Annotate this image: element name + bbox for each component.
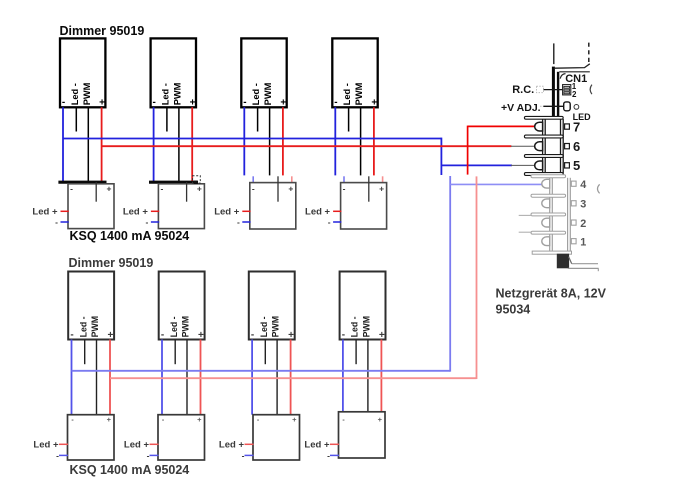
KSQ K6 (KSQ 1400 mA 95024) box bbox=[158, 415, 205, 460]
svg-text:+: + bbox=[190, 98, 196, 109]
svg-text:Led +: Led + bbox=[305, 206, 331, 217]
wire: '-' stub of K5 (blue) bbox=[59, 454, 68, 456]
wire: '-' stub of K4 (blue) bbox=[333, 221, 341, 223]
label: Led + (K7) bbox=[219, 440, 245, 461]
wire: terminal 5 grey stub bbox=[511, 164, 536, 166]
svg-text:7: 7 bbox=[573, 119, 580, 134]
wire: Led+ stub of K3 (red) bbox=[242, 210, 250, 212]
grey arc (case detail, right of terminal 4) bbox=[598, 184, 600, 193]
svg-text:-: - bbox=[243, 97, 246, 108]
R.C. grey dotted pad bbox=[537, 86, 544, 92]
terminal flange bar between 7/6 bbox=[524, 135, 563, 138]
terminal 5 pin square bbox=[565, 163, 570, 168]
wire U3 pin 'Led -' (black stub) bbox=[257, 107, 259, 131]
wire U5 pin '+' (red) down bbox=[109, 340, 111, 417]
wire U2 pin '-' (blue) down bbox=[153, 107, 155, 182]
svg-text:+: + bbox=[379, 330, 385, 341]
svg-text:+: + bbox=[288, 184, 293, 194]
wire U2 pin 'PWM' (black) down bbox=[178, 107, 180, 182]
wire U6 pin 'Led -' (black stub) bbox=[174, 340, 176, 365]
wire: riser bottom blue bus to terminal 4 (light blue vertical x=450) bbox=[449, 176, 451, 372]
svg-text:-: - bbox=[153, 97, 156, 108]
svg-text:-: - bbox=[342, 329, 345, 340]
PSU cable end tick bbox=[597, 268, 599, 271]
svg-text:R.C.: R.C. bbox=[512, 84, 534, 96]
wire: riser bottom red bus (light red vertical x=476) bbox=[476, 176, 478, 379]
wire U1 pin 'Led -' (black stub) bbox=[75, 107, 77, 131]
svg-text:+: + bbox=[280, 98, 286, 109]
grey arc (case detail, right of CN1) bbox=[590, 85, 592, 95]
svg-text:PWM: PWM bbox=[90, 316, 100, 338]
grey terminal 3 screw contact bbox=[542, 199, 550, 208]
label: Led + (K1) bbox=[32, 206, 58, 227]
wire: top blue bus to terminal 5 bbox=[441, 164, 512, 166]
terminal flange bar between 6/5 bbox=[524, 155, 563, 158]
svg-text:-: - bbox=[327, 450, 330, 460]
svg-text:-: - bbox=[146, 217, 149, 227]
CN1 leader arc bbox=[560, 74, 565, 79]
terminal block body vertical x=560.5 bbox=[560, 119, 562, 173]
svg-text:Led +: Led + bbox=[214, 206, 240, 217]
svg-text:5: 5 bbox=[573, 158, 580, 173]
svg-text:PWM: PWM bbox=[263, 82, 273, 105]
svg-text:-: - bbox=[56, 450, 59, 460]
wire: K3 '-' stub (light blue) bbox=[252, 176, 254, 183]
ADJ grey dotted stub bbox=[540, 105, 543, 107]
svg-text:+: + bbox=[107, 184, 112, 194]
wire: top red bus (+ rail) to terminal 6 bbox=[102, 145, 512, 147]
wire U6 pin 'PWM' (black) down into KSQ bbox=[186, 340, 188, 434]
wire U4 pin 'Led -' (black stub) bbox=[348, 107, 350, 131]
svg-text:2: 2 bbox=[580, 218, 586, 230]
wire: '-' stub of K8 (blue) bbox=[330, 454, 339, 456]
wire: K3 '+' stub (light red) bbox=[291, 176, 293, 183]
svg-text:Netzgrerät 8A, 12V: Netzgrerät 8A, 12V bbox=[496, 287, 607, 301]
wire U3 pin '-' (blue) down bbox=[243, 107, 245, 175]
dimmer U6 (Dimmer 95019) box with pin labels bbox=[159, 272, 205, 341]
wire: Led+ stub of K2 (red) bbox=[151, 210, 159, 212]
wire U5 pin 'Led -' (black stub) bbox=[84, 340, 86, 365]
KSQ K2 (KSQ 1400 mA 95024) box bbox=[158, 184, 204, 229]
label: Led + (K3) bbox=[214, 206, 240, 227]
PSU cable line upper bbox=[572, 263, 598, 265]
svg-text:PWM: PWM bbox=[271, 316, 281, 338]
svg-text:Led +: Led + bbox=[32, 206, 58, 217]
terminal 6 screw contact (half-disc) bbox=[535, 142, 543, 151]
grey flange bar between 4/3 bbox=[531, 194, 566, 197]
svg-text:Led -: Led - bbox=[161, 83, 171, 105]
wire: K4 '+' stub (light red) bbox=[382, 176, 384, 183]
svg-text:+: + bbox=[288, 330, 294, 341]
wire U3 pin 'PWM' (black) down bbox=[269, 107, 271, 175]
PSU cable line lower bbox=[568, 267, 599, 269]
svg-text:Led -: Led - bbox=[78, 316, 88, 337]
PSU left wall thick bar 1 bbox=[552, 67, 555, 117]
wire U1 pin 'PWM' (black) down bbox=[87, 107, 89, 182]
terminal flange bar above 7 bbox=[524, 116, 563, 119]
svg-text:+V ADJ.: +V ADJ. bbox=[501, 102, 541, 114]
KSQ K1 (KSQ 1400 mA 95024) box bbox=[68, 184, 114, 229]
wire: terminal 6 grey stub bbox=[511, 145, 536, 147]
svg-text:2: 2 bbox=[572, 90, 577, 99]
svg-text:PWM: PWM bbox=[362, 316, 372, 338]
wire: bottom red bus (+ rail) bbox=[110, 377, 477, 379]
wire: Led+ stub of K6 (red) bbox=[150, 443, 159, 445]
wire: '-' stub of K6 (blue) bbox=[150, 454, 159, 456]
svg-text:1: 1 bbox=[580, 236, 586, 248]
terminal flange bar below 5 bbox=[524, 173, 563, 176]
wire: Led+ stub of K8 (red) bbox=[330, 443, 339, 445]
terminal block body vertical x=545.2 bbox=[544, 119, 546, 173]
wire: bottom blue bus (- rail) bbox=[72, 370, 451, 372]
wire U3 pin '+' (red) down bbox=[282, 107, 284, 175]
terminal 7 screw contact (half-disc) bbox=[535, 122, 543, 131]
dimmer U5 (Dimmer 95019) box with pin labels bbox=[68, 272, 114, 341]
dimmer U7 (Dimmer 95019) box with pin labels bbox=[249, 272, 295, 341]
svg-text:-: - bbox=[251, 329, 254, 340]
ADJ pin line bbox=[543, 105, 563, 107]
svg-text:Led -: Led - bbox=[251, 83, 261, 105]
wire: Led+ stub of K1 (red) bbox=[61, 210, 69, 212]
terminal bar above KSQ K2 (thick black) bbox=[149, 181, 197, 184]
svg-text:KSQ 1400 mA 95024: KSQ 1400 mA 95024 bbox=[70, 463, 190, 477]
wire: top blue bus vertical drop at x=441 bbox=[440, 138, 442, 175]
PSU cable exit block (filled) bbox=[557, 254, 568, 268]
dimmer U1 (Dimmer 95019) box with pin labels bbox=[60, 38, 105, 108]
KSQ K4 (KSQ 1400 mA 95024) box bbox=[341, 183, 387, 229]
wire: K4 '-' stub (light blue) bbox=[343, 176, 345, 183]
svg-text:3: 3 bbox=[580, 199, 586, 211]
grey terminal 2 pin square bbox=[571, 220, 576, 225]
svg-text:-: - bbox=[62, 97, 65, 108]
grey terminal body vertical x=552.3 bbox=[551, 178, 553, 251]
wire: top blue bus (- rail) to PSU corner bbox=[63, 138, 442, 140]
svg-text:Led +: Led + bbox=[219, 440, 245, 451]
grey terminal 4 screw contact bbox=[542, 179, 550, 188]
wire U5 pin 'PWM' (black) down into KSQ bbox=[96, 340, 98, 434]
svg-text:PWM: PWM bbox=[181, 316, 191, 338]
LED indicator circle bbox=[574, 105, 579, 110]
PSU top edge inner line bbox=[559, 71, 590, 73]
svg-text:Led -: Led - bbox=[350, 316, 360, 337]
KSQ K3 center pin (grey) bbox=[277, 176, 279, 201]
svg-text:95034: 95034 bbox=[496, 303, 531, 317]
dimmer U3 (Dimmer 95019) box with pin labels bbox=[241, 38, 286, 108]
selection marquee (dashed) at K2 bar right end bbox=[193, 176, 201, 184]
grey terminal 1 screw contact bbox=[542, 237, 550, 246]
connector CN1 pins 1-2 (R.C.) bbox=[563, 85, 571, 95]
wire U4 pin 'PWM' (black) down bbox=[360, 107, 362, 175]
KSQ K1 center pin (grey) bbox=[95, 182, 97, 202]
terminal block body vertical x=542.6 bbox=[542, 119, 544, 173]
svg-text:-: - bbox=[70, 329, 73, 340]
grey terminal body vertical x=549.7 bbox=[549, 178, 551, 251]
label: Led + (K6) bbox=[124, 440, 150, 461]
svg-text:Led +: Led + bbox=[124, 440, 150, 451]
grey flange bar between 3/2 bbox=[531, 213, 566, 216]
grey terminal 3 pin square bbox=[571, 201, 576, 206]
grey flange bar between 2/1 bbox=[531, 231, 566, 234]
wire: '-' stub of K2 (blue) bbox=[151, 221, 159, 223]
wire U2 pin 'Led -' (black stub) bbox=[166, 107, 168, 131]
wire: Led+ stub of K5 (red) bbox=[59, 443, 68, 445]
svg-text:+: + bbox=[371, 98, 377, 109]
svg-text:+: + bbox=[378, 415, 383, 424]
wire: '-' stub of K1 (blue) bbox=[61, 221, 69, 223]
svg-text:+: + bbox=[379, 184, 384, 194]
R.C. pin line bbox=[544, 89, 563, 91]
svg-text:+: + bbox=[197, 184, 202, 194]
wire U5 pin '-' (blue) down bbox=[71, 340, 73, 415]
PSU cable diagonal bbox=[569, 257, 572, 264]
dimmer U2 (Dimmer 95019) box with pin labels bbox=[151, 38, 196, 108]
svg-text:-: - bbox=[252, 184, 255, 194]
wire: '-' stub of K7 (blue) bbox=[245, 454, 254, 456]
svg-text:Dimmer 95019: Dimmer 95019 bbox=[60, 24, 145, 38]
svg-text:+: + bbox=[99, 98, 105, 109]
grey stub left of terminal 1 bbox=[519, 231, 532, 233]
svg-text:-: - bbox=[55, 217, 58, 227]
svg-text:-: - bbox=[161, 329, 164, 340]
wire: terminal 7 red drop (x=467) bbox=[467, 126, 469, 175]
wire U6 pin '-' (blue) down bbox=[161, 340, 163, 415]
grey terminal 2 screw contact bbox=[542, 218, 550, 227]
svg-text:6: 6 bbox=[573, 139, 580, 154]
KSQ K5 (KSQ 1400 mA 95024) box bbox=[68, 415, 115, 460]
grey terminal 4 pin square bbox=[571, 181, 576, 186]
dimmer U4 (Dimmer 95019) box with pin labels bbox=[332, 38, 377, 108]
wire U6 pin '+' (red) down bbox=[200, 340, 202, 417]
svg-text:Led +: Led + bbox=[123, 206, 149, 217]
KSQ K8 (KSQ 1400 mA 95024) box bbox=[339, 412, 386, 458]
svg-text:-: - bbox=[147, 450, 150, 460]
grey terminal body vertical x=570.3 bbox=[569, 178, 571, 251]
PSU top edge outer line bbox=[555, 64, 590, 68]
wire: Led+ stub of K7 (red) bbox=[245, 443, 254, 445]
svg-text:Led -: Led - bbox=[169, 316, 179, 337]
svg-text:-: - bbox=[343, 184, 346, 194]
label: Led + (K2) bbox=[123, 206, 149, 227]
wire U7 pin '-' (blue) down bbox=[251, 340, 253, 415]
wire U4 pin '-' (blue) down bbox=[334, 107, 336, 175]
PSU left wall thick bar 2 bbox=[557, 72, 559, 116]
wire U8 pin '-' (blue) down bbox=[342, 340, 344, 412]
wire U7 pin 'Led -' (black stub) bbox=[264, 340, 266, 365]
label: Led + (K8) bbox=[304, 440, 330, 461]
terminal 6 pin square bbox=[565, 144, 570, 149]
grey flange bar above 4 bbox=[531, 175, 566, 178]
svg-text:-: - bbox=[328, 217, 331, 227]
wire U8 pin 'Led -' (black stub) bbox=[355, 340, 357, 365]
svg-text:+: + bbox=[107, 330, 113, 341]
dimmer U8 (Dimmer 95019) box with pin labels bbox=[340, 272, 386, 341]
svg-text:-: - bbox=[242, 450, 245, 460]
svg-text:Led +: Led + bbox=[304, 440, 330, 451]
wire U1 pin '+' (red) down bbox=[101, 107, 103, 182]
terminal block body vertical x=563.2 bbox=[562, 119, 564, 173]
svg-text:KSQ 1400 mA 95024: KSQ 1400 mA 95024 bbox=[70, 229, 190, 243]
wire U1 pin '-' (blue) down bbox=[62, 107, 64, 182]
KSQ K2 center pin (grey) bbox=[186, 182, 188, 202]
grey terminal body vertical x=567.6 bbox=[567, 178, 569, 251]
terminal 7 pin square bbox=[565, 124, 570, 129]
svg-text:-: - bbox=[237, 217, 240, 227]
wire: '-' stub of K3 (blue) bbox=[242, 221, 250, 223]
svg-text:+: + bbox=[292, 415, 297, 424]
grey bottom flange (wide) bbox=[532, 251, 571, 254]
svg-text:Led -: Led - bbox=[342, 83, 352, 105]
KSQ K7 (KSQ 1400 mA 95024) box bbox=[253, 415, 300, 460]
grey stub left of terminal 2 bbox=[519, 214, 532, 216]
wire: light blue feed to terminal 4 bbox=[450, 183, 543, 185]
grey terminal 1 pin square bbox=[571, 239, 576, 244]
label: Led + (K5) bbox=[33, 440, 59, 461]
wire U7 pin 'PWM' (black) down into KSQ bbox=[276, 340, 278, 434]
wire U8 pin 'PWM' (black) down into KSQ bbox=[367, 340, 369, 431]
wire U4 pin '+' (red) down bbox=[373, 107, 375, 175]
PSU thin top lead line bbox=[553, 43, 555, 64]
wire U8 pin '+' (red) down bbox=[380, 340, 382, 414]
KSQ K4 center pin (grey) bbox=[368, 176, 370, 201]
label: Led + (K4) bbox=[305, 206, 331, 227]
wire U7 pin '+' (red) down bbox=[290, 340, 292, 417]
svg-text:Led -: Led - bbox=[259, 316, 269, 337]
KSQ K3 (KSQ 1400 mA 95024) box bbox=[250, 183, 296, 229]
svg-text:+: + bbox=[107, 415, 112, 424]
wire: terminal 7 red feed bbox=[468, 125, 536, 127]
svg-text:PWM: PWM bbox=[82, 82, 92, 105]
svg-text:PWM: PWM bbox=[354, 82, 364, 105]
wire: Led+ stub of K4 (red) bbox=[333, 210, 341, 212]
svg-text:PWM: PWM bbox=[173, 82, 183, 105]
wire U2 pin '+' (red) down bbox=[191, 107, 193, 182]
V-ADJ trimmer capsule bbox=[564, 102, 571, 111]
svg-text:+: + bbox=[198, 330, 204, 341]
svg-text:Led +: Led + bbox=[33, 440, 59, 451]
svg-text:4: 4 bbox=[580, 179, 586, 191]
PSU dashed vertical edge bbox=[588, 43, 590, 66]
svg-text:-: - bbox=[160, 184, 163, 194]
terminal bar above KSQ K1 (thick black) bbox=[58, 181, 106, 184]
svg-text:-: - bbox=[334, 97, 337, 108]
svg-text:Led -: Led - bbox=[70, 83, 80, 105]
svg-text:Dimmer 95019: Dimmer 95019 bbox=[69, 256, 154, 270]
svg-text:-: - bbox=[70, 184, 73, 194]
svg-text:+: + bbox=[197, 415, 202, 424]
terminal 5 screw contact (half-disc) bbox=[535, 161, 543, 170]
